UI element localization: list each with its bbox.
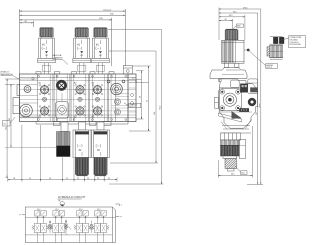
svg-text:25: 25 [87, 178, 89, 180]
valve body (front view) [20, 74, 137, 122]
solenoid tower S1 (front view) [38, 27, 56, 62]
detail label box [282, 36, 306, 48]
knurled cap (side view) [225, 29, 238, 40]
svg-text:104: 104 [154, 112, 156, 115]
schematic frame [20, 204, 123, 243]
svg-text:Hmax: Hmax [160, 105, 162, 110]
svg-text:96.5: 96.5 [233, 11, 237, 13]
bottom dimension chain [8, 125, 117, 182]
svg-text:18: 18 [13, 178, 15, 180]
stub label [235, 166, 247, 175]
svg-text:OLIO T: OLIO T [129, 106, 135, 108]
section split lines [53, 74, 129, 122]
bracket right of cartridge [240, 139, 246, 158]
svg-text:60.5: 60.5 [229, 15, 233, 17]
svg-text:167: 167 [256, 112, 258, 115]
valve body (side view) [219, 79, 258, 133]
body feet [54, 122, 112, 126]
left inlet end cap [13, 78, 38, 117]
title [58, 195, 86, 199]
outlet big port [107, 80, 125, 115]
svg-text:25: 25 [97, 178, 99, 180]
body bottom lip [36, 122, 128, 125]
schematic valve section 4 [92, 209, 109, 243]
bolt holes row [38, 75, 127, 120]
mounting plate with bolts (side view) [218, 89, 241, 111]
pump symbol [59, 200, 65, 207]
right dark knob (side view) [248, 98, 256, 106]
svg-text:161: 161 [5, 127, 7, 130]
dimension line Cmax top [20, 9, 126, 11]
svg-text:9.5: 9.5 [132, 78, 135, 80]
svg-text:M12: M12 [241, 173, 244, 175]
mounting tabs on top of body [36, 66, 132, 75]
relief valve tower below S2 [73, 122, 91, 176]
svg-text:32: 32 [108, 178, 110, 180]
right vertical dimension lines of front view [108, 30, 164, 185]
side view top dimension lines [219, 7, 263, 184]
coil terminal nub [244, 49, 250, 52]
left vertical dimension lines [5, 79, 58, 178]
nut label box [232, 24, 243, 30]
schematic valve section 3 [74, 209, 91, 243]
port circles section 1 [38, 82, 50, 119]
svg-text:38: 38 [25, 21, 27, 23]
left bracket (side view) [215, 79, 222, 108]
detail connector component [267, 37, 284, 60]
port circles section 4 [91, 82, 103, 119]
extension lines top [20, 9, 126, 74]
svg-text:COMANDO: COMANDO [53, 57, 64, 60]
coil leader label box [249, 51, 277, 69]
boss below plug section 2 [56, 93, 69, 118]
svg-text:51: 51 [29, 178, 31, 180]
svg-text:HYDRAULIC CIRCUIT: HYDRAULIC CIRCUIT [58, 195, 86, 199]
knurled adjuster (side view, dark) [221, 145, 240, 158]
boxed label right of body [124, 103, 141, 108]
left leader label top [1, 71, 20, 80]
schematic valve section 1 [32, 209, 49, 243]
svg-text:296.5: 296.5 [243, 7, 248, 9]
svg-text:M28: M28 [237, 26, 240, 28]
right stacked port block (side view) [248, 79, 258, 94]
schematic valve section 2 [50, 209, 67, 243]
svg-text:56: 56 [49, 178, 51, 180]
solenoid tower S3 (front view) [92, 27, 110, 62]
left small boxed label [3, 117, 16, 126]
svg-text:PROTEZIONE: PROTEZIONE [290, 44, 302, 46]
svg-text:12V DC: 12V DC [266, 67, 273, 69]
relief valve symbol 1 [49, 221, 52, 234]
svg-text:16: 16 [135, 81, 137, 83]
svg-text:Hmax: Hmax [259, 103, 261, 108]
port circles section 3 [74, 82, 86, 119]
chamfer wedge (side view) [218, 111, 241, 122]
svg-text:Cmax=1: Cmax=1 [103, 9, 112, 11]
lower cartridge collar [221, 133, 241, 145]
svg-text:G1: G1 [4, 124, 6, 126]
dark terminal block (side view) [240, 84, 247, 93]
svg-text:65: 65 [147, 100, 149, 102]
dimension line 243 [20, 18, 112, 20]
label between towers [53, 54, 69, 64]
svg-text:25: 25 [77, 178, 79, 180]
relief valve tower below S3 [92, 122, 110, 176]
svg-text:85: 85 [9, 118, 11, 120]
svg-text:MANOMETRO: MANOMETRO [1, 73, 14, 76]
small dims right of body top [129, 78, 149, 83]
transition neck below coil [210, 67, 247, 78]
spool cover circle (side view) [223, 93, 236, 106]
solenoid tower S2 (front view) [73, 27, 91, 62]
solenoid coil cylinder (side view) [222, 40, 244, 67]
dimension line a [20, 21, 34, 23]
outlet section texture [112, 88, 137, 112]
svg-text:48: 48 [140, 96, 142, 98]
svg-text:21: 21 [66, 178, 68, 180]
dimension line 305 [20, 14, 126, 16]
relief valve symbol 2 [65, 220, 71, 235]
tower stems to body [42, 63, 104, 74]
relief valve symbol 3 [90, 221, 93, 234]
top port rect (side view) [231, 80, 240, 87]
side view bottom dimension [218, 126, 252, 178]
dark hex plug section 2 [56, 80, 67, 91]
small id plate (side view) [239, 108, 249, 112]
threaded stub [225, 158, 237, 171]
svg-text:38.5: 38.5 [231, 174, 235, 176]
svg-text:28: 28 [225, 19, 227, 21]
solenoid coil below (black) [57, 122, 71, 157]
